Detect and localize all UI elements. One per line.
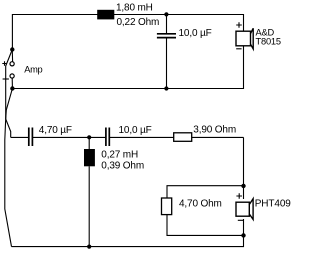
svg-text:4,70 Ohm: 4,70 Ohm xyxy=(179,198,222,209)
svg-text:0,22 Ohm: 0,22 Ohm xyxy=(117,17,160,28)
svg-text:3,90 Ohm: 3,90 Ohm xyxy=(193,125,236,136)
svg-text:PHT409: PHT409 xyxy=(255,198,292,209)
svg-text:10,0 µF: 10,0 µF xyxy=(179,28,212,39)
svg-text:4,70 µF: 4,70 µF xyxy=(39,125,72,136)
svg-text:Amp: Amp xyxy=(24,65,42,75)
svg-text:0,27 mH: 0,27 mH xyxy=(101,150,138,161)
svg-text:T8015: T8015 xyxy=(256,36,281,46)
svg-text:0,39 Ohm: 0,39 Ohm xyxy=(101,161,144,172)
svg-text:10,0 µF: 10,0 µF xyxy=(119,125,152,136)
svg-text:1,80 mH: 1,80 mH xyxy=(116,3,153,14)
